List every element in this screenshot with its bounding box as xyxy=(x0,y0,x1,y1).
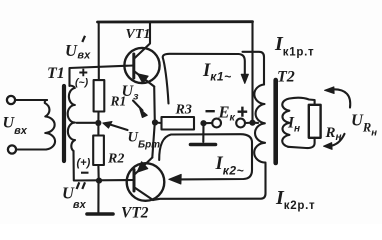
node Ek plus junction xyxy=(249,120,255,126)
wire T1 secondary bottom lead xyxy=(74,151,134,181)
svg-text:Rн: Rн xyxy=(325,125,342,143)
svg-text:Iк2р.т: Iк2р.т xyxy=(275,187,315,212)
wire VT2 collector bottom xyxy=(153,164,266,201)
wire T2 primary top lead xyxy=(243,52,265,85)
ground left xyxy=(97,181,99,213)
svg-text:Uз: Uз xyxy=(122,83,140,103)
wire Ek plus to tap xyxy=(253,122,259,124)
svg-text:Uвх: Uвх xyxy=(65,41,91,62)
annotation arrow URn bottom xyxy=(330,134,345,146)
wire emitter vertical lower xyxy=(152,123,155,158)
label plus top polarity xyxy=(79,69,87,77)
wire R1 bottom stub xyxy=(97,112,99,124)
svg-text:URн: URн xyxy=(351,111,377,139)
svg-text:Iн: Iн xyxy=(287,115,300,135)
wire R2 top stub xyxy=(97,123,99,136)
input terminal top xyxy=(7,96,15,104)
wire Ek left xyxy=(204,122,213,124)
wire T2 secondary bottom to Rn xyxy=(288,138,315,148)
transistor VT2 xyxy=(127,163,165,201)
transformer T1 primary winding xyxy=(45,100,55,150)
wire VT1 emitter vertical xyxy=(153,87,156,123)
svg-text:VT2: VT2 xyxy=(121,205,149,222)
node R2-base junction xyxy=(96,178,102,184)
annotation arrow Ik1 loop xyxy=(163,54,245,104)
transformer T2 secondary winding xyxy=(282,99,289,147)
annotation arrow U3 xyxy=(133,101,143,111)
wire input top xyxy=(15,99,47,101)
ground center xyxy=(202,123,204,142)
wire rail right vertical xyxy=(251,22,253,123)
annotation arrow Ubrt xyxy=(110,125,128,131)
wire R2 bottom stub xyxy=(97,165,99,181)
node R1-R2 junction xyxy=(95,120,101,126)
label minus dash bottom xyxy=(81,172,89,174)
wire R3 left xyxy=(155,121,162,124)
battery terminal plus circle xyxy=(236,119,245,128)
svg-text:T2: T2 xyxy=(277,69,295,86)
node emitter-R3 junction xyxy=(152,119,158,125)
resistor Rn xyxy=(309,105,321,138)
svg-text:Iк1~: Iк1~ xyxy=(202,61,232,84)
battery terminal minus circle xyxy=(212,119,221,128)
node R3-ground junction xyxy=(200,120,206,126)
wire input bottom xyxy=(16,148,46,150)
svg-text:VT1: VT1 xyxy=(126,27,151,42)
wire Ek right xyxy=(245,122,252,124)
resistor R2 xyxy=(93,136,104,166)
svg-text:Iк2~: Iк2~ xyxy=(215,154,245,178)
label plus Ek xyxy=(238,107,248,117)
annotation arrow Ik2 loop xyxy=(159,134,252,179)
input terminal bottom xyxy=(8,145,16,153)
transformer T2 primary winding xyxy=(254,85,265,163)
T2 core xyxy=(273,80,278,163)
svg-text:(+): (+) xyxy=(77,157,91,169)
svg-text:(~): (~) xyxy=(75,77,89,89)
svg-text:UБрт: UБрт xyxy=(128,130,161,151)
transistor VT1 xyxy=(124,48,159,83)
T1 secondary winding xyxy=(68,86,75,152)
svg-text:Eк: Eк xyxy=(218,103,236,124)
annotation arrow URn top xyxy=(333,89,350,107)
wire rail left vertical xyxy=(98,22,100,65)
label minus Ek xyxy=(206,110,215,112)
wire T2 secondary top to Rn xyxy=(290,98,315,105)
svg-text:R2: R2 xyxy=(107,152,124,167)
wire R1 top stub xyxy=(98,66,100,80)
wire T1 secondary top lead xyxy=(70,66,134,87)
resistor R1 xyxy=(94,80,105,111)
svg-text:Iк1р.т: Iк1р.т xyxy=(274,33,314,59)
T1 core xyxy=(62,86,66,161)
svg-text:T1: T1 xyxy=(47,65,65,82)
svg-text:R3: R3 xyxy=(175,103,192,118)
wire top rail xyxy=(98,20,253,23)
wire T1 secondary center tap xyxy=(77,122,96,124)
svg-text:Uвх: Uвх xyxy=(3,115,28,138)
resistor R3 xyxy=(162,117,195,130)
